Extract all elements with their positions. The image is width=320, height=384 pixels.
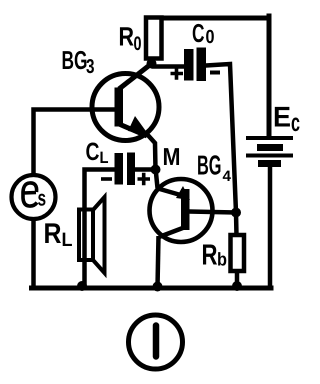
junction speaker at bottom rail (77, 281, 87, 291)
wire BG4 base lead (189, 212, 236, 213)
capacitor C0 (184, 48, 206, 82)
label es (23, 183, 46, 211)
svg-text:4: 4 (223, 168, 232, 185)
wire BG3 emitter to node M (146, 133, 156, 170)
figure number 1 (129, 315, 183, 369)
label EC (273, 102, 300, 138)
svg-text:R: R (202, 240, 218, 272)
polarity minus of C0 (210, 71, 220, 75)
label BG4 (197, 150, 232, 186)
wire battery negative to bottom rail (268, 164, 273, 287)
label RL (44, 218, 73, 251)
label Rb (202, 240, 228, 272)
capacitor CL (115, 153, 136, 186)
svg-text:L: L (62, 229, 73, 251)
source es (12, 175, 56, 219)
polarity plus of CL (138, 173, 151, 186)
transistor BG4 (150, 179, 213, 242)
wire es bottom lead (31, 219, 36, 287)
svg-text:BG: BG (62, 45, 88, 75)
svg-text:R: R (119, 22, 135, 52)
wire right rail to battery positive (267, 16, 272, 137)
polarity plus of C0 (171, 67, 184, 79)
svg-text:BG: BG (197, 150, 222, 181)
transistor BG3 (92, 64, 159, 141)
junction Rb at bottom rail (232, 281, 242, 291)
polarity minus of CL (101, 177, 112, 181)
svg-text:0: 0 (134, 33, 142, 55)
resistor Rb (231, 235, 245, 271)
wire CL left to speaker and bottom rail (85, 170, 116, 288)
node M junction (151, 165, 161, 175)
junction node below R0 (147, 59, 157, 69)
battery EC (246, 138, 293, 164)
svg-text:c: c (291, 109, 300, 137)
wire junction to C0 (152, 64, 185, 69)
svg-text:0: 0 (206, 27, 215, 48)
wire M node to BG4 emitter (156, 168, 158, 188)
svg-text:3: 3 (86, 56, 95, 78)
wire es top lead to BG3 base (34, 110, 117, 177)
wire bottom rail (32, 286, 272, 291)
wire CL right to node M (135, 167, 155, 172)
svg-text:L: L (100, 149, 109, 167)
svg-text:M: M (163, 144, 181, 171)
svg-text:C: C (192, 18, 205, 48)
label C0 (192, 18, 215, 48)
wire C0 to Rb and BG4 base node (206, 64, 237, 236)
svg-text:C: C (86, 138, 100, 166)
svg-text:E: E (273, 102, 291, 134)
speaker RL (79, 197, 105, 273)
junction BG4 base node (231, 208, 241, 218)
label R0 (119, 22, 142, 56)
svg-text:s: s (38, 186, 47, 211)
label CL (86, 138, 109, 167)
wire Rb to bottom rail (235, 271, 240, 287)
junction BG4 collector at bottom rail (153, 282, 163, 292)
label BG3 (62, 45, 95, 78)
wire BG4 collector to bottom rail (158, 236, 159, 287)
resistor R0 (146, 18, 162, 59)
wire top rail (152, 16, 269, 21)
svg-text:R: R (44, 218, 62, 250)
svg-text:b: b (217, 249, 227, 270)
